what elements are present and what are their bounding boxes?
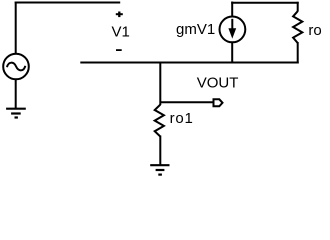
wire gm source top vertical	[231, 2, 233, 18]
wire gm source bottom vertical	[231, 42, 233, 63]
pin VOUT (output port symbol)	[214, 99, 223, 106]
wire ro top lead	[297, 2, 299, 12]
wire VOUT stub	[160, 101, 213, 103]
current source gmV1 (dependent source)	[220, 17, 246, 43]
wire middle horizontal (common node)	[80, 62, 298, 64]
wire top-left horizontal (V1 + terminal lead)	[15, 2, 121, 4]
wire top-right horizontal	[231, 2, 299, 4]
wire left vertical (source to top)	[15, 2, 17, 55]
svg-text:ro1: ro1	[170, 110, 194, 127]
wire junction vertical (to VOUT node)	[159, 62, 161, 106]
ground (under source V1)	[6, 109, 26, 118]
svg-text:VOUT: VOUT	[197, 75, 239, 92]
voltage source V1 (AC sine source)	[3, 54, 29, 80]
resistor ro1	[155, 105, 164, 137]
label + (V1 plus polarity)	[116, 12, 123, 18]
wire below source	[15, 79, 17, 108]
ground (under ro1)	[150, 165, 169, 174]
resistor ro	[293, 11, 302, 43]
svg-text:gmV1: gmV1	[176, 21, 215, 38]
svg-text:V1: V1	[112, 23, 130, 40]
wire below ro1	[159, 136, 161, 166]
svg-text:ro: ro	[308, 22, 321, 39]
wire ro bottom lead	[297, 42, 299, 64]
label minus (V1 minus polarity)	[116, 49, 122, 51]
